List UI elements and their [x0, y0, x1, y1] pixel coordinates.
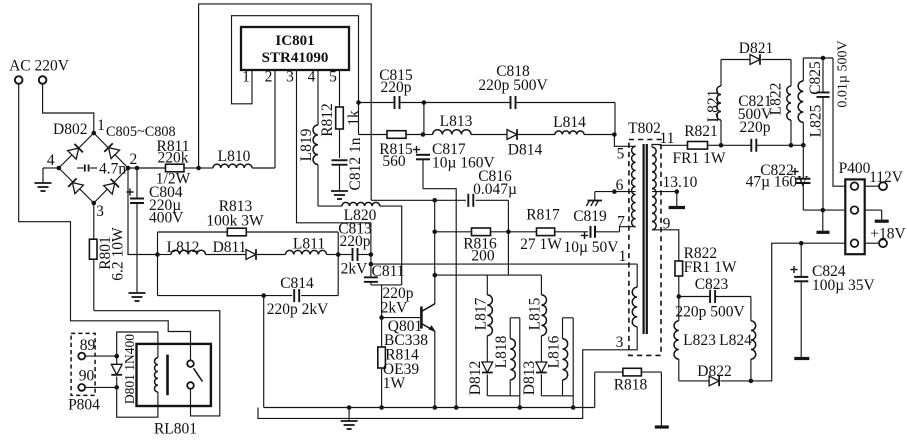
pin 13.10 to ground bar: [652, 191, 677, 193]
wire main ground rail: [264, 407, 595, 409]
resistor R812 1k: [336, 107, 344, 129]
ground symbol on rail: [348, 408, 350, 422]
wire C811 bottom row to base node: [371, 284, 402, 286]
relay switch: [187, 360, 194, 367]
diode D812: [482, 362, 493, 373]
wire L820 right down to base row: [380, 206, 402, 285]
IC pin 2: [274, 70, 276, 79]
svg-text:6.2 10W: 6.2 10W: [110, 227, 127, 281]
inductor L821: [720, 120, 722, 145]
svg-text:47µ 160V: 47µ 160V: [746, 174, 810, 191]
wire P804 pin 90 to D801: [85, 386, 117, 388]
wire pin4 down to L819: [317, 79, 319, 125]
wire L817 group bottom: [487, 395, 520, 397]
P400 pin 1: [851, 182, 859, 190]
svg-text:L817: L817: [472, 297, 489, 330]
connector P400: [845, 179, 864, 254]
capacitor C814 220p 2kV: [158, 295, 293, 297]
bridge diode top-right: [104, 143, 119, 158]
inductor L825: [802, 122, 804, 145]
svg-text:L812: L812: [167, 239, 200, 256]
node 1: [92, 131, 97, 136]
svg-text:L825: L825: [808, 104, 825, 137]
svg-text:220p: 220p: [381, 79, 412, 96]
wire outer loop R811 node over IC to C816 line: [199, 4, 372, 200]
wire R816 row: [432, 230, 437, 235]
terminal +18V: [865, 242, 879, 244]
svg-text:1: 1: [97, 117, 105, 134]
capacitor C813 220p 2kV: [338, 254, 352, 256]
svg-text:3: 3: [286, 69, 294, 86]
svg-text:560: 560: [382, 153, 406, 170]
svg-text:6: 6: [616, 177, 624, 194]
capacitor C816 0.047u: [467, 194, 469, 207]
wire R817-node down to y275 line: [507, 232, 509, 275]
svg-text:220k: 220k: [158, 150, 189, 167]
svg-text:1: 1: [242, 69, 250, 86]
IC pin 3: [296, 70, 298, 79]
svg-text:D822: D822: [697, 363, 731, 380]
svg-text:200: 200: [471, 248, 495, 265]
svg-text:L820: L820: [344, 207, 377, 224]
svg-text:5: 5: [329, 69, 337, 86]
svg-text:2kV: 2kV: [381, 300, 409, 317]
ground bar right of P400 pin2: [865, 209, 882, 211]
bridge diode top-left: [68, 144, 83, 159]
wire P804 pin 89 to D801: [85, 355, 117, 357]
connector P804: [71, 333, 95, 395]
inductor L818: [510, 317, 520, 319]
svg-text:13.10: 13.10: [663, 174, 698, 191]
svg-text:100µ 35V: 100µ 35V: [812, 277, 876, 294]
resistor R821 FR1 1W: [688, 142, 708, 150]
svg-text:L815: L815: [526, 297, 543, 330]
svg-text:0.047µ: 0.047µ: [473, 181, 517, 198]
wire 112V top node: [803, 57, 833, 59]
svg-text:STR41090: STR41090: [262, 50, 329, 66]
node 3: [92, 201, 97, 206]
inductor L819: [313, 125, 318, 165]
svg-text:C812 1n: C812 1n: [347, 137, 364, 190]
relay coil: [154, 358, 157, 392]
capacitor C822 47u 160V: [802, 145, 804, 178]
node R811 right junction: [196, 166, 201, 171]
svg-text:D811: D811: [213, 239, 247, 256]
wire C816 line: [371, 199, 466, 201]
capacitor C819 10u 50V: [581, 235, 588, 237]
wire C819 to T802 pin7: [620, 227, 636, 232]
pin 5: [614, 135, 635, 147]
svg-text:1: 1: [619, 248, 627, 265]
relay RL801 body: [137, 344, 211, 406]
capacitor C818 220p 500V: [424, 102, 511, 104]
svg-text:9: 9: [663, 216, 671, 233]
inductor L816: [563, 317, 574, 319]
wire pin5 to R812: [339, 79, 341, 107]
inductor L823: [678, 297, 680, 321]
pin 11 to R821: [652, 145, 688, 148]
svg-text:400V: 400V: [149, 210, 184, 227]
svg-text:4.7n: 4.7n: [99, 161, 126, 178]
svg-text:FR1 1W: FR1 1W: [673, 150, 726, 167]
wire T802 pin3 return line: [258, 327, 637, 419]
inductor L822: [790, 60, 792, 87]
svg-text:10µ 50V: 10µ 50V: [564, 239, 620, 256]
capacitor C821 500V 220p: [721, 144, 751, 146]
wire AC terminal 1 to relay staircase: [19, 84, 191, 360]
P400 pin 2: [851, 206, 859, 214]
ground bar right of R818: [660, 372, 662, 426]
svg-text:D812: D812: [467, 361, 484, 395]
capacitor C815 220p: [356, 100, 361, 105]
diode D801 1N400: [116, 356, 118, 364]
inductor L810: [199, 167, 213, 169]
svg-text:2kV: 2kV: [341, 261, 369, 278]
svg-text:C819: C819: [573, 208, 607, 225]
svg-text:AC 220V: AC 220V: [9, 57, 70, 74]
wire C817 bottom to ground rail: [423, 189, 456, 408]
wire C822 bottom to P400 pin2: [803, 209, 844, 211]
svg-text:R812: R812: [319, 103, 336, 137]
resistor R811 220k 1/2W: [128, 167, 166, 169]
svg-text:D821: D821: [739, 40, 773, 57]
svg-text:C814: C814: [280, 275, 314, 292]
node T802 pin5 feed: [612, 132, 617, 137]
svg-text:1W: 1W: [383, 375, 406, 392]
svg-text:L816: L816: [546, 335, 563, 368]
inductor L820: [318, 205, 342, 207]
svg-text:+18V: +18V: [870, 226, 906, 243]
capacitor C817 10u 160V: [413, 149, 420, 151]
wire pin1 loop to C815 node: [232, 16, 359, 104]
svg-text:RL801: RL801: [154, 421, 197, 438]
svg-text:D813: D813: [521, 361, 538, 396]
diode D811: [206, 254, 247, 256]
inductor L813: [423, 134, 433, 136]
wire relay coil loop: [117, 332, 158, 358]
ground at bridge node 4: [43, 167, 59, 169]
svg-text:1k: 1k: [346, 110, 363, 126]
resistor R814 OE39 1W: [381, 318, 383, 347]
capacitor C804 220u 400V: [135, 166, 140, 171]
wire L815 group bottom: [541, 395, 573, 397]
capacitor C823 220p 500V: [679, 296, 710, 298]
terminal 112V: [865, 185, 879, 187]
svg-text:220p 500V: 220p 500V: [478, 77, 548, 94]
svg-text:220p 500V: 220p 500V: [675, 304, 745, 321]
svg-text:L824: L824: [719, 332, 752, 349]
node C821 left: [719, 143, 724, 148]
relay core bar: [166, 355, 169, 396]
svg-text:C811: C811: [371, 263, 404, 280]
wire C813 node to T802 pin 1: [369, 262, 374, 267]
IC pin 5: [339, 70, 341, 79]
svg-text:2: 2: [265, 69, 273, 86]
transformer core: [642, 144, 644, 334]
pin 9 down to R822: [652, 230, 679, 261]
IC pin 4: [317, 70, 319, 79]
chassis ground at pin 6: [594, 192, 596, 201]
wire bridge node 2 down to main line: [128, 168, 158, 255]
wire R801 bottom to relay switch: [94, 311, 220, 416]
ground below C812: [331, 190, 348, 192]
wire C814 node down to ground rail: [263, 296, 265, 408]
diode D813: [536, 362, 547, 373]
svg-text:220p 2kV: 220p 2kV: [267, 301, 329, 318]
inductor L814: [518, 134, 555, 136]
svg-text:2: 2: [130, 151, 138, 168]
svg-text:C823: C823: [695, 276, 729, 293]
svg-text:27 1W: 27 1W: [520, 236, 562, 253]
resistor R818: [594, 372, 596, 407]
capacitor C825 0.01u 500V: [822, 58, 824, 92]
svg-text:L818: L818: [493, 335, 510, 368]
svg-text:C825: C825: [807, 61, 824, 95]
inductor L815: [540, 275, 542, 295]
pin 6 to ground: [595, 191, 636, 193]
diode D814: [507, 130, 517, 140]
svg-text:IC801: IC801: [275, 33, 314, 49]
IC pin 1: [251, 70, 253, 79]
capacitor C811 220p 2kV: [370, 264, 372, 277]
svg-text:0.01µ 500V: 0.01µ 500V: [836, 40, 851, 107]
svg-text:R817: R817: [526, 207, 560, 224]
svg-text:220p: 220p: [740, 119, 771, 136]
svg-text:P400: P400: [839, 160, 871, 177]
svg-text:89: 89: [80, 337, 96, 354]
T802 secondary winding pins 11-13.10-9: [652, 147, 656, 230]
wire C816 right down to R817 node: [507, 200, 509, 232]
transformer T802 dashed box: [629, 140, 661, 356]
svg-text:R818: R818: [614, 377, 648, 394]
diode D821: [721, 59, 750, 61]
P400 pin 3: [851, 239, 859, 247]
resistor R815 560: [358, 103, 360, 135]
inductor L817: [486, 275, 488, 295]
resistor R816 200: [472, 228, 491, 236]
wire base feed line y275: [435, 274, 542, 276]
wire down to P400 pin1 112V: [833, 58, 845, 186]
inductor L824: [750, 297, 752, 321]
wire C815 node down to C817: [421, 132, 426, 137]
capacitor C824 100u 35V: [800, 243, 802, 276]
diode D822: [679, 380, 709, 382]
svg-text:3: 3: [96, 203, 104, 220]
capacitor C812 1n: [332, 159, 348, 161]
IC IC801 STR41090: [241, 27, 349, 70]
svg-text:112V: 112V: [869, 169, 904, 186]
resistor R822 FR1 1W: [675, 261, 683, 276]
svg-text:T802: T802: [628, 120, 661, 137]
resistor R813 100k 3W: [158, 231, 228, 233]
node 4: [57, 166, 62, 171]
svg-text:P804: P804: [68, 397, 100, 414]
wire +18V line to P400 pin3: [801, 242, 845, 244]
svg-text:3: 3: [616, 334, 624, 351]
svg-text:11: 11: [660, 130, 675, 147]
svg-text:4: 4: [47, 152, 55, 169]
svg-text:4: 4: [308, 69, 316, 86]
svg-text:D802: D802: [53, 121, 87, 138]
wire AC terminal 2 to bridge node 1: [43, 84, 94, 133]
transistor Q801 BC338: [379, 315, 384, 320]
resistor R801 6.2 10W: [93, 203, 95, 239]
bridge diode bottom-left: [68, 178, 83, 193]
svg-text:L810: L810: [218, 148, 251, 165]
T802 primary winding pins 5-6-7: [632, 146, 636, 226]
inductor L811: [257, 254, 286, 256]
wire pin2 down to L810: [274, 79, 276, 168]
svg-text:5: 5: [617, 146, 625, 163]
svg-text:L819: L819: [298, 128, 315, 161]
svg-text:R821: R821: [684, 123, 718, 140]
wire C818 right down to T802 pin5 node: [614, 103, 616, 135]
resistor R817 27 1W: [508, 231, 536, 233]
wire loop right side: [337, 232, 339, 296]
svg-text:100k 3W: 100k 3W: [206, 213, 264, 230]
wire pin3 down to C813 node: [297, 79, 371, 255]
svg-text:L811: L811: [293, 236, 325, 253]
bridge diode bottom-right: [104, 179, 119, 194]
svg-text:D814: D814: [508, 142, 543, 159]
svg-text:FR1 1W: FR1 1W: [684, 259, 737, 276]
inductor L812: [158, 254, 172, 256]
ground bar below pin2 node: [822, 210, 824, 231]
svg-text:220p: 220p: [340, 233, 371, 250]
svg-text:D801 1N400: D801 1N400: [122, 334, 137, 404]
svg-text:L823: L823: [683, 332, 716, 349]
svg-text:90: 90: [79, 368, 95, 385]
svg-text:L821: L821: [705, 90, 722, 123]
node 2: [126, 166, 131, 171]
ground below C804: [129, 292, 146, 294]
wire D822 node up to +18V line: [751, 243, 801, 381]
wire Q801 collector column: [434, 232, 436, 275]
wire loop left side: [157, 232, 159, 296]
svg-text:L814: L814: [553, 114, 586, 131]
svg-text:7: 7: [617, 214, 625, 231]
svg-text:L813: L813: [440, 113, 473, 130]
